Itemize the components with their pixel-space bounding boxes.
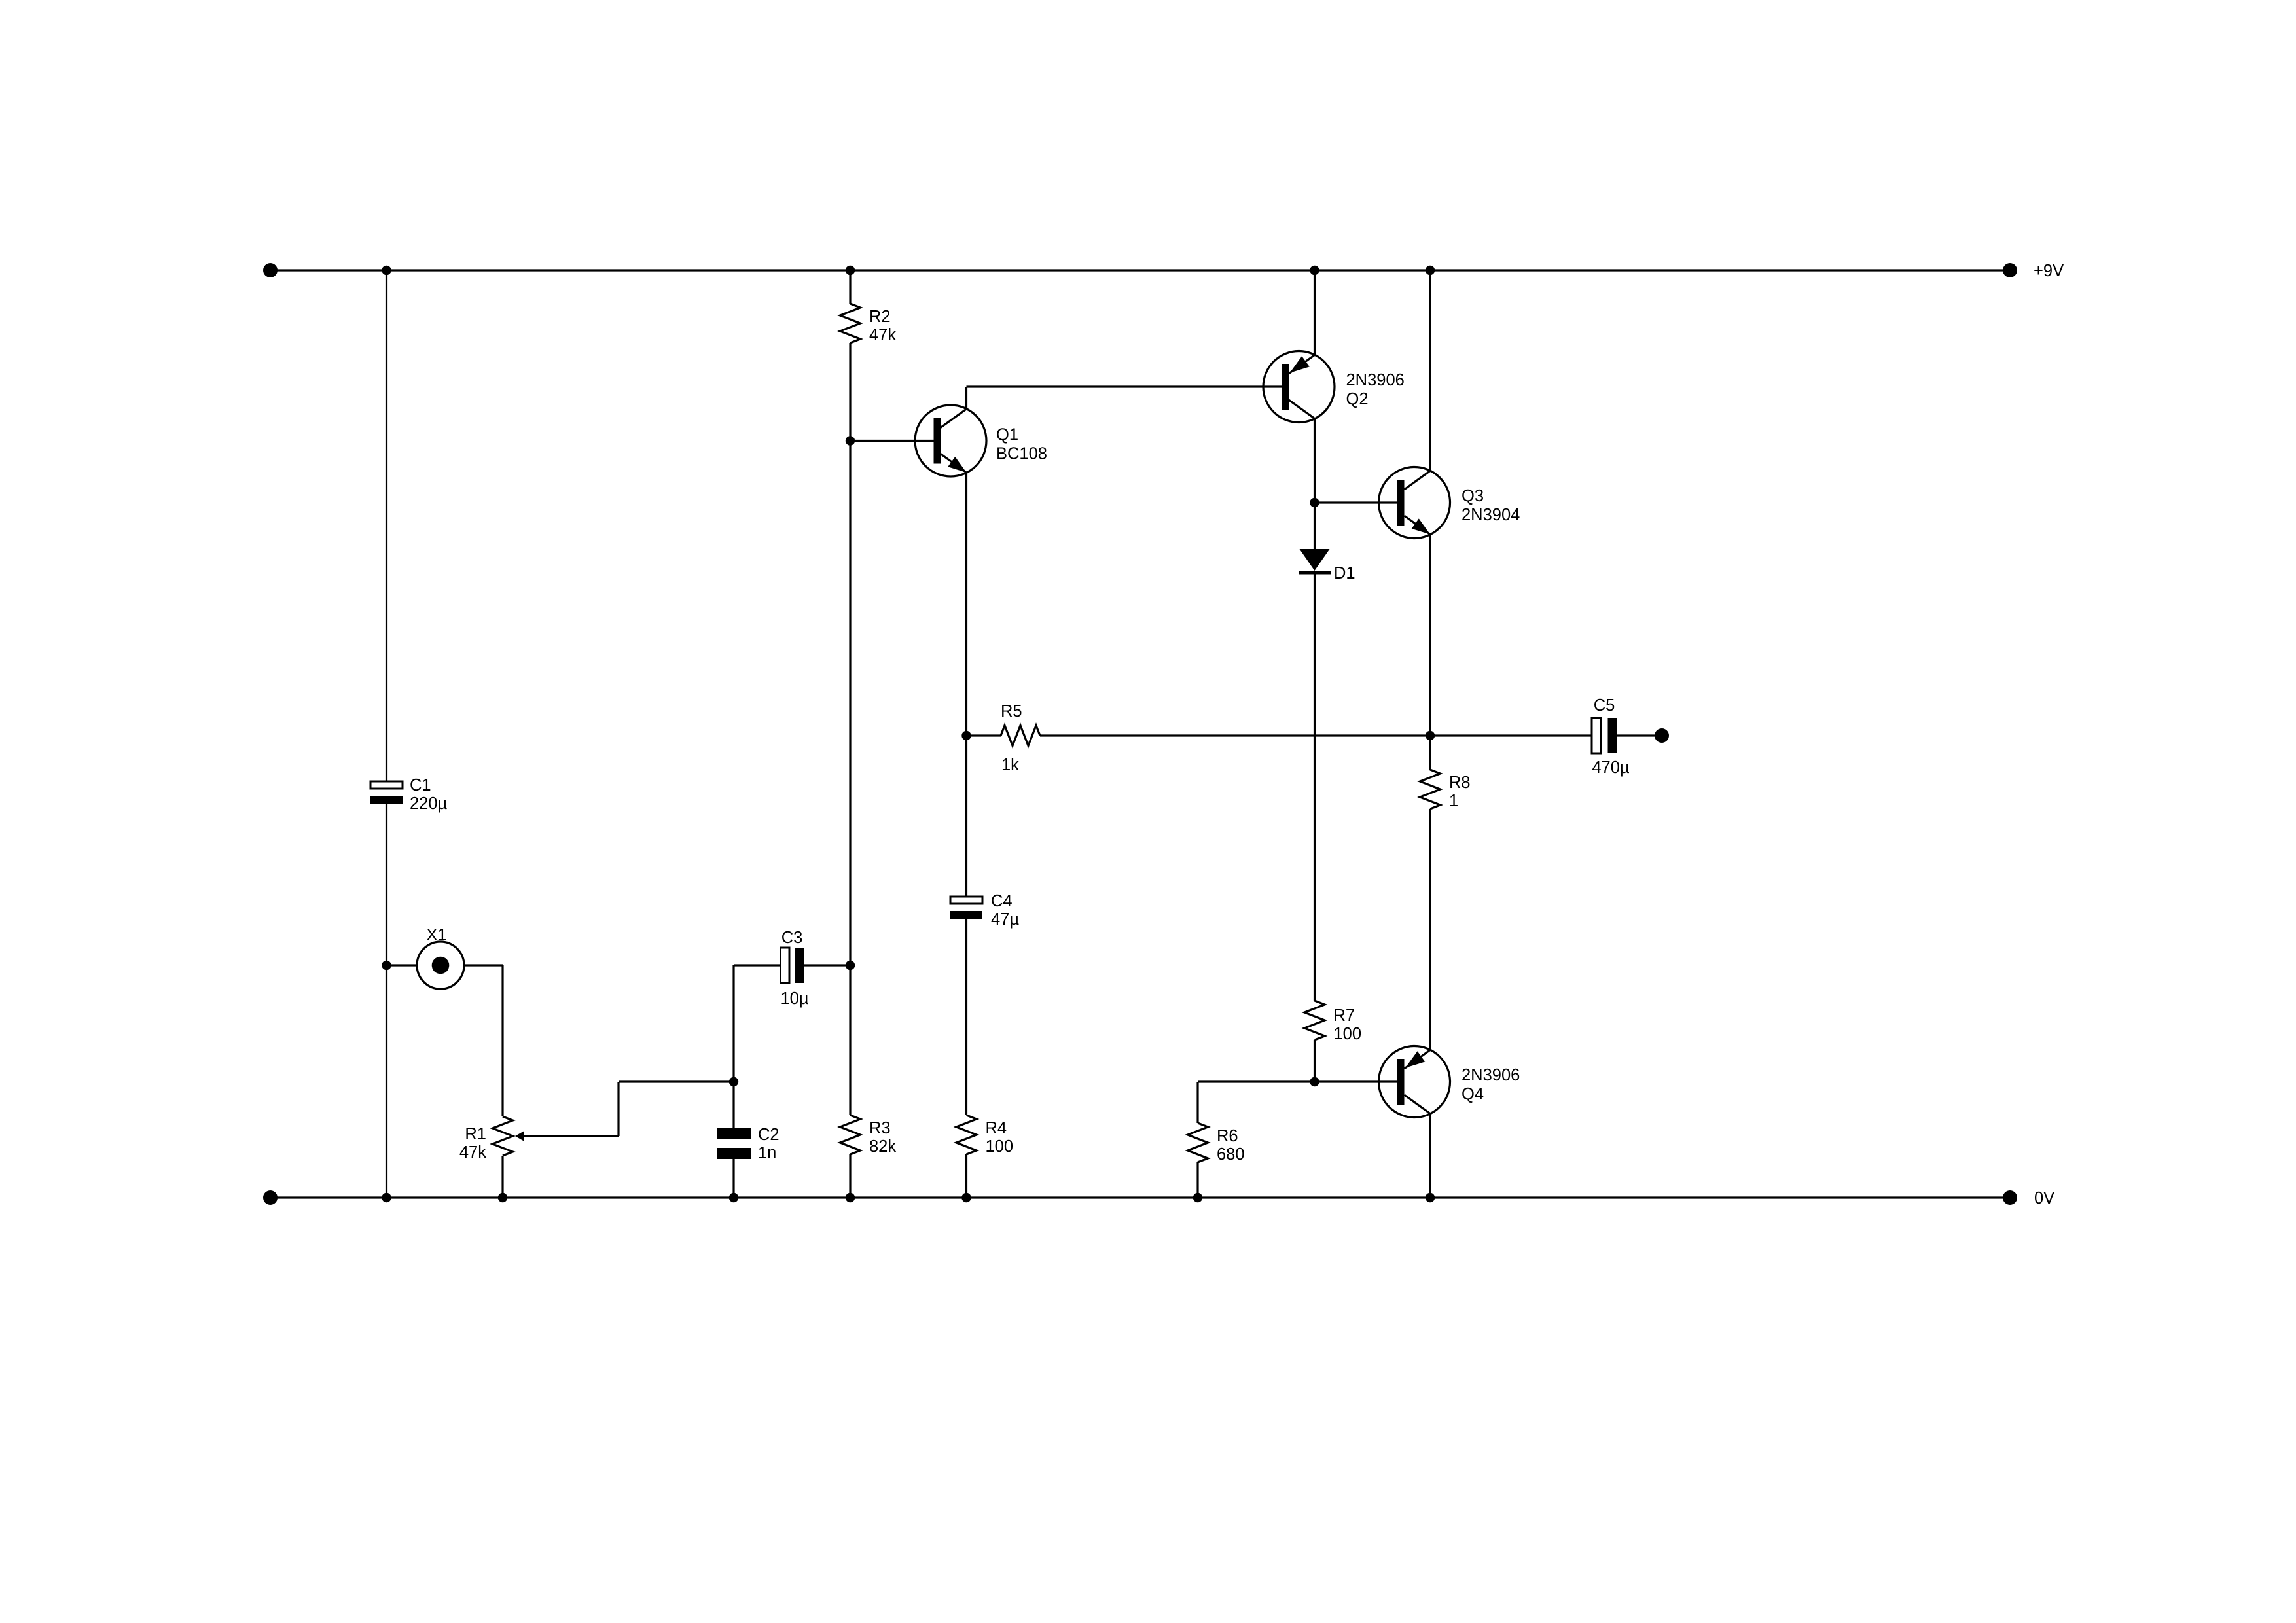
svg-text:220µ: 220µ xyxy=(410,794,448,813)
wire C5 to output terminal xyxy=(1617,734,1662,736)
svg-text:C2: C2 xyxy=(758,1126,780,1144)
svg-text:C5: C5 xyxy=(1594,696,1615,715)
transistor Q2 xyxy=(1263,351,1405,423)
transistor Q4 xyxy=(1379,1046,1520,1118)
svg-text:R3: R3 xyxy=(869,1119,891,1137)
wire D1 to R7 xyxy=(1314,575,1316,1001)
wire Q4 base row xyxy=(1198,1080,1397,1082)
terminal dot output xyxy=(1655,728,1669,743)
svg-text:1: 1 xyxy=(1449,792,1458,810)
wire R2 to R3 xyxy=(849,343,851,1115)
junction R3 / 0V rail xyxy=(846,1193,855,1202)
svg-text:R2: R2 xyxy=(869,308,891,326)
capacitor C4 xyxy=(950,892,1019,929)
transistor Q3 xyxy=(1379,467,1520,539)
junction wiper / C2 / C3 node xyxy=(729,1077,738,1086)
svg-text:Q1: Q1 xyxy=(996,426,1018,444)
wire Q1 emitter down xyxy=(965,473,967,897)
wire Q2 emitter to rail xyxy=(1314,270,1316,355)
svg-text:R5: R5 xyxy=(1001,702,1022,721)
resistor R2 xyxy=(840,304,897,344)
wire Q1 collector riser xyxy=(965,387,967,409)
svg-text:2N3906: 2N3906 xyxy=(1346,371,1405,389)
wire R1 to 0V rail xyxy=(501,1156,503,1198)
capacitor C2 xyxy=(717,1126,780,1162)
wire X1 right lead xyxy=(464,964,503,966)
svg-text:X1: X1 xyxy=(426,926,446,944)
junction C3 / R2R3 line xyxy=(846,961,855,970)
wire R7 to Q4 base node xyxy=(1314,1040,1316,1082)
wire R6 to 0V rail xyxy=(1196,1162,1198,1198)
transistor Q1 xyxy=(915,405,1047,476)
svg-text:2N3904: 2N3904 xyxy=(1462,506,1520,524)
wire rail to C1 xyxy=(386,270,387,781)
wire C3 right lead xyxy=(804,964,850,966)
svg-text:R6: R6 xyxy=(1217,1127,1238,1145)
svg-text:BC108: BC108 xyxy=(996,445,1047,463)
svg-text:R7: R7 xyxy=(1334,1007,1355,1025)
wire C3 left lead down xyxy=(732,965,734,1128)
svg-text:Q4: Q4 xyxy=(1462,1085,1484,1103)
junction R1 / 0V rail xyxy=(498,1193,507,1202)
wire wiper horizontal xyxy=(523,1135,619,1137)
wire R3 to 0V rail xyxy=(849,1154,851,1198)
svg-text:2N3906: 2N3906 xyxy=(1462,1066,1520,1084)
junction Q1 emitter / R5 xyxy=(961,731,971,740)
junction C1 line / X1 wire xyxy=(382,961,391,970)
terminal dot +9V right xyxy=(2003,263,2017,277)
wire wiper to C2 node xyxy=(619,1080,734,1082)
wire C2 to 0V rail xyxy=(732,1159,734,1198)
svg-text:82k: 82k xyxy=(869,1137,896,1156)
svg-text:470µ: 470µ xyxy=(1592,758,1630,777)
svg-text:+9V: +9V xyxy=(2034,262,2064,280)
svg-text:100: 100 xyxy=(1334,1025,1362,1043)
wire Q4 collector to rail xyxy=(1429,1114,1431,1198)
resistor R5 xyxy=(967,702,1041,774)
wire 0V rail xyxy=(270,1196,2010,1198)
wire R6 top lead xyxy=(1196,1082,1198,1123)
svg-text:Q2: Q2 xyxy=(1346,390,1369,408)
resistor R3 xyxy=(840,1115,897,1156)
wire wiper riser xyxy=(617,1082,619,1136)
terminal dot 0V right xyxy=(2003,1190,2017,1205)
svg-text:0V: 0V xyxy=(2034,1189,2054,1207)
svg-text:C1: C1 xyxy=(410,776,431,794)
potentiometer R1 xyxy=(459,1116,513,1162)
wire Q3 base xyxy=(1315,501,1398,503)
wire output node to C5 xyxy=(1430,734,1592,736)
resistor R7 xyxy=(1304,1001,1361,1043)
wire Q1 collector to Q2 base xyxy=(967,385,1282,387)
svg-text:47k: 47k xyxy=(869,326,896,344)
wire X1 left lead xyxy=(387,964,418,966)
junction output node xyxy=(1426,731,1435,740)
svg-text:47k: 47k xyxy=(459,1143,486,1162)
svg-text:680: 680 xyxy=(1217,1145,1245,1164)
capacitor C3 xyxy=(780,929,808,1008)
wire X1 to R1 xyxy=(501,965,503,1116)
junction top rail / R2 xyxy=(846,266,855,275)
wire Q3 emitter down xyxy=(1429,534,1431,770)
wiper arrow R1 xyxy=(515,1131,524,1141)
svg-text:D1: D1 xyxy=(1334,564,1355,582)
svg-text:10µ: 10µ xyxy=(780,990,808,1008)
resistor R6 xyxy=(1188,1123,1245,1164)
connector X1 xyxy=(417,926,464,989)
wire rail to R2 xyxy=(849,270,851,304)
junction top rail / Q2 emitter xyxy=(1310,266,1319,275)
svg-text:C4: C4 xyxy=(991,892,1013,910)
svg-text:R8: R8 xyxy=(1449,774,1471,792)
svg-text:1k: 1k xyxy=(1001,756,1019,774)
junction top rail / Q3 collector xyxy=(1426,266,1435,275)
junction R7 / Q4 base xyxy=(1310,1077,1319,1086)
wire C4 to R4 xyxy=(965,919,967,1115)
wire Q1 base xyxy=(850,440,934,442)
junction C2 / 0V rail xyxy=(729,1193,738,1202)
diode D1 xyxy=(1299,549,1355,582)
junction Q4 collector / 0V rail xyxy=(1426,1193,1435,1202)
junction Q2 collector / Q3 base xyxy=(1310,498,1319,507)
junction top rail / C1 xyxy=(382,266,391,275)
wire +9V rail xyxy=(270,269,2010,271)
svg-text:47µ: 47µ xyxy=(991,910,1019,929)
wire R4 to 0V rail xyxy=(965,1154,967,1198)
capacitor C5 xyxy=(1592,696,1630,777)
terminal dot +9V left xyxy=(263,263,278,277)
junction R2 line / Q1 base xyxy=(846,436,855,445)
resistor R4 xyxy=(956,1115,1013,1156)
capacitor C1 xyxy=(370,776,448,813)
wire C1 to 0V rail xyxy=(386,804,387,1198)
resistor R8 xyxy=(1420,770,1471,810)
wire R5 to output node xyxy=(1040,734,1430,736)
wire Q3 collector to rail xyxy=(1429,270,1431,471)
wire R8 to Q4 emitter xyxy=(1429,809,1431,1050)
junction R4 / 0V rail xyxy=(961,1193,971,1202)
junction C1 line / 0V rail xyxy=(382,1193,391,1202)
wire C3 left lead xyxy=(734,964,781,966)
wire Q2 collector down xyxy=(1314,419,1316,549)
svg-text:100: 100 xyxy=(986,1137,1014,1156)
svg-text:C3: C3 xyxy=(781,929,803,947)
svg-text:R1: R1 xyxy=(465,1125,486,1143)
svg-text:Q3: Q3 xyxy=(1462,487,1484,505)
svg-text:R4: R4 xyxy=(986,1119,1007,1137)
junction R6 / 0V rail xyxy=(1193,1193,1202,1202)
svg-text:1n: 1n xyxy=(758,1144,776,1162)
terminal dot 0V left xyxy=(263,1190,278,1205)
